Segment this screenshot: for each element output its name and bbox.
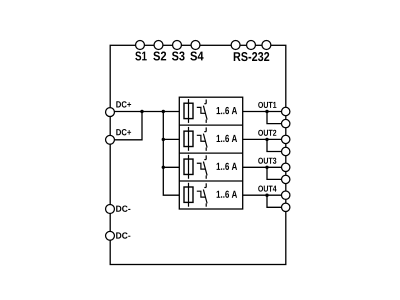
terminal circles — [106, 41, 290, 241]
junction DC+ branch — [140, 110, 143, 113]
terminal OUT1 a — [282, 107, 290, 115]
ECB module box — [179, 97, 242, 209]
wire OUT1 feed — [243, 111, 282, 113]
terminal DC+ 2 — [106, 135, 115, 144]
terminal DC+ 1 — [106, 108, 115, 117]
terminal DC- 2 — [106, 231, 115, 240]
label DC+ 1 — [116, 101, 131, 107]
terminal OUT2 a — [282, 135, 290, 143]
breaker F1 (fuse + contact), row 1 — [184, 99, 207, 123]
label 1..6 A row1 — [217, 107, 237, 114]
label S4 — [190, 51, 203, 60]
wire bus stub row3 — [163, 166, 179, 168]
junction OUT3 — [265, 166, 268, 169]
breaker F2 (fuse + contact), row 2 — [184, 127, 207, 151]
label DC- 2 — [116, 232, 130, 238]
junction OUT4 — [265, 194, 268, 197]
label OUT1 — [258, 102, 276, 108]
wire bus stub row2 — [163, 138, 179, 140]
label S2 — [153, 51, 166, 60]
terminal RS-232 b — [247, 41, 256, 50]
wire OUT4 feed — [243, 194, 282, 196]
junction bus row1 — [162, 110, 165, 113]
label DC+ 2 — [116, 129, 131, 135]
label 1..6 A row3 — [217, 163, 237, 170]
label S3 — [172, 51, 185, 60]
junction OUT2 — [265, 138, 268, 141]
junction bus row3 — [162, 166, 165, 169]
wire OUT3 feed — [243, 166, 282, 168]
terminal S2 — [154, 41, 163, 50]
label 1..6 A row2 — [217, 135, 237, 142]
label 1..6 A row4 — [217, 191, 237, 198]
wire OUT4 lower branch — [267, 195, 282, 207]
breaker F4 (fuse + contact), row 4 — [184, 183, 207, 207]
wire DC+ row1 feed — [110, 111, 179, 113]
terminal S4 — [191, 41, 200, 50]
terminal OUT1 b — [282, 119, 290, 127]
terminal S3 — [173, 41, 182, 50]
wire outer border loop — [110, 45, 286, 264]
terminal RS-232 c — [262, 41, 271, 50]
label OUT3 — [258, 158, 276, 164]
terminal OUT2 b — [282, 147, 290, 155]
label OUT4 — [258, 186, 276, 192]
label OUT2 — [258, 130, 276, 136]
junction OUT1 — [265, 110, 268, 113]
terminal OUT4 a — [282, 191, 290, 199]
wire vertical distribution bus — [163, 112, 179, 196]
breaker F3 (fuse + contact), row 3 — [184, 155, 207, 179]
label RS-232 — [234, 52, 270, 61]
terminal OUT3 a — [282, 163, 290, 171]
junction dots — [140, 110, 268, 197]
wire DC+ second terminal branch — [110, 112, 142, 140]
junction bus row2 — [162, 138, 165, 141]
label S1 — [135, 51, 146, 60]
terminal OUT3 b — [282, 175, 290, 183]
terminal S1 — [136, 41, 145, 50]
wire OUT3 lower branch — [267, 167, 282, 179]
terminal RS-232 a — [231, 41, 240, 50]
wire OUT2 lower branch — [267, 139, 282, 151]
terminal OUT4 b — [282, 203, 290, 211]
label DC- 1 — [116, 206, 130, 212]
wire OUT2 feed — [243, 138, 282, 140]
wire OUT1 lower branch — [267, 112, 282, 124]
terminal DC- 1 — [106, 205, 115, 214]
